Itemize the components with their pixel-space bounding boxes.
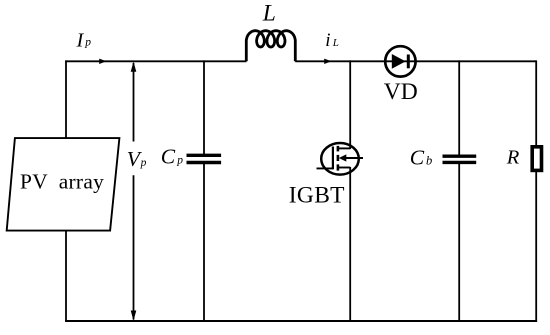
diode VD cathode bar xyxy=(407,55,410,69)
svg-text:R: R xyxy=(506,146,520,168)
IGBT body arrow xyxy=(339,154,347,161)
IGBT gate lead xyxy=(317,167,333,169)
Cp wire upper xyxy=(203,60,205,154)
svg-text:IGBT: IGBT xyxy=(289,182,345,208)
IGBT gate plate xyxy=(332,147,334,170)
wire left vertical lower xyxy=(65,230,67,322)
svg-text:PV array: PV array xyxy=(20,170,104,194)
IGBT circle xyxy=(321,143,359,175)
svg-text:L: L xyxy=(262,0,276,26)
diode VD circle xyxy=(385,46,415,76)
wire left vertical upper xyxy=(65,60,67,138)
IGBT channel mid segment xyxy=(337,155,340,161)
IGBT drain wire xyxy=(349,60,351,149)
iL arrow xyxy=(324,59,331,64)
IGBT source link xyxy=(339,167,351,169)
diode VD triangle xyxy=(392,54,406,69)
svg-text:i: i xyxy=(325,30,330,51)
Cb plate top xyxy=(443,154,477,157)
IGBT source wire xyxy=(349,167,351,321)
svg-text:p: p xyxy=(176,154,183,166)
svg-text:p: p xyxy=(84,36,91,48)
Vp arrow line lower xyxy=(133,175,135,319)
PV array box xyxy=(7,138,120,231)
svg-text:C: C xyxy=(410,145,425,169)
svg-text:b: b xyxy=(426,154,432,168)
Vp arrow line upper xyxy=(133,63,135,142)
wire top-right horizontal segment xyxy=(295,60,536,62)
svg-text:C: C xyxy=(161,144,176,168)
Ip arrow xyxy=(99,59,106,64)
Cp wire lower xyxy=(203,164,205,321)
svg-text:L: L xyxy=(332,37,339,49)
wire right vertical lower xyxy=(535,170,537,322)
svg-text:I: I xyxy=(76,30,85,52)
svg-text:VD: VD xyxy=(384,79,418,105)
Cb plate bottom xyxy=(443,161,477,164)
IGBT body line xyxy=(344,157,363,159)
IGBT drain link xyxy=(339,147,351,149)
Vp arrowhead up xyxy=(131,62,137,72)
IGBT channel bottom segment xyxy=(337,164,340,170)
wire bottom horizontal xyxy=(65,320,537,322)
Cp plate bottom xyxy=(187,161,222,164)
Cp plate top xyxy=(187,154,222,157)
wire right vertical upper xyxy=(535,60,537,147)
Cb wire upper xyxy=(458,60,460,155)
inductor L coil xyxy=(246,31,295,62)
svg-text:p: p xyxy=(140,157,147,169)
wire top-left horizontal segment xyxy=(65,60,246,62)
IGBT channel top segment xyxy=(337,146,340,152)
Cb wire lower xyxy=(458,164,460,321)
resistor R body xyxy=(532,147,541,171)
Vp arrowhead down xyxy=(131,311,137,321)
